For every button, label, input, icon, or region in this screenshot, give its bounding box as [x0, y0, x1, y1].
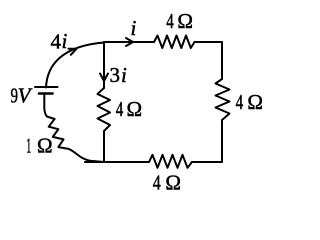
current arrow 4i on arc [69, 49, 77, 55]
resistor R-top 4 ohm zigzag [154, 36, 195, 49]
svg-text:4: 4 [236, 90, 244, 114]
svg-text:4: 4 [166, 9, 174, 33]
svg-text:3: 3 [110, 63, 121, 87]
svg-text:4: 4 [51, 30, 62, 54]
resistor R-bottom 4 ohm zigzag [149, 155, 192, 168]
svg-text:Ω: Ω [177, 9, 193, 33]
wire middle branch upper [103, 42, 105, 88]
wire top from junction to resistor [104, 41, 154, 43]
svg-text:1: 1 [26, 134, 31, 158]
svg-text:Ω: Ω [165, 171, 181, 195]
battery V1 9V source plates [35, 87, 58, 94]
current arrow i on top wire [126, 38, 133, 46]
resistor R-middle 4 ohm zigzag [98, 88, 111, 131]
label 3i [110, 63, 128, 87]
svg-text:i: i [131, 16, 137, 40]
label 4 ohm bottom [153, 171, 181, 195]
label 4 ohm top [166, 9, 193, 33]
svg-text:Ω: Ω [37, 134, 53, 158]
resistor R-right 4 ohm zigzag [216, 79, 230, 120]
svg-text:i: i [121, 63, 127, 87]
svg-text:i: i [62, 29, 68, 53]
label 1 ohm [26, 134, 52, 158]
wire middle branch lower [103, 131, 105, 162]
svg-text:Ω: Ω [127, 97, 143, 121]
svg-text:Ω: Ω [247, 90, 263, 114]
label 4 ohm right [236, 90, 263, 114]
current arrow 3i on middle branch [100, 74, 108, 82]
svg-text:V: V [18, 84, 33, 108]
wire arc from battery + terminal to top junction [46, 43, 104, 88]
wire bottom-left segment [85, 161, 149, 163]
svg-text:4: 4 [116, 97, 124, 121]
wire right-bottom corner [192, 120, 222, 162]
label 4 ohm middle [116, 97, 142, 121]
wire top-right corner [195, 42, 223, 79]
svg-text:4: 4 [153, 171, 161, 195]
label 4i [51, 29, 68, 54]
resistor R2 1 ohm diagonal zigzag with battery stem and curve to bottom wire [44, 95, 104, 163]
label 9V [11, 84, 33, 108]
